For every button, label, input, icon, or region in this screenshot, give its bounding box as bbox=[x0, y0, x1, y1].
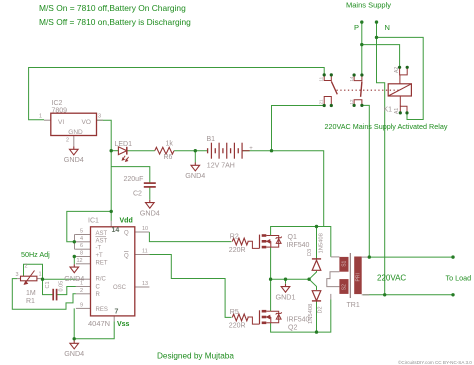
svg-text:GND4: GND4 bbox=[64, 349, 84, 358]
svg-text:GND: GND bbox=[68, 129, 83, 136]
svg-text:14: 14 bbox=[349, 76, 354, 82]
svg-text:M/S On = 7810 off,Battery On C: M/S On = 7810 off,Battery On Charging bbox=[39, 3, 186, 13]
svg-text:R/C: R/C bbox=[96, 277, 107, 283]
svg-text:R5: R5 bbox=[230, 309, 239, 316]
svg-text:3: 3 bbox=[98, 114, 101, 120]
svg-text:1N5408: 1N5408 bbox=[308, 304, 314, 324]
svg-text:M/S Off = 7810 on,Battery is D: M/S Off = 7810 on,Battery is Discharging bbox=[39, 17, 191, 27]
svg-text:LED1: LED1 bbox=[115, 141, 133, 148]
svg-text:GND4: GND4 bbox=[185, 171, 205, 180]
svg-text:1M: 1M bbox=[26, 290, 36, 297]
svg-text:7809: 7809 bbox=[52, 108, 68, 115]
svg-text:Vss: Vss bbox=[117, 321, 130, 328]
svg-text:Designed by Mujtaba: Designed by Mujtaba bbox=[157, 352, 234, 361]
svg-text:AST: AST bbox=[96, 231, 108, 237]
svg-text:6: 6 bbox=[80, 243, 83, 249]
svg-text:1k: 1k bbox=[166, 141, 174, 148]
svg-text:5: 5 bbox=[80, 229, 83, 235]
svg-text:+: + bbox=[249, 146, 253, 152]
svg-text:0.05: 0.05 bbox=[59, 281, 65, 292]
svg-text:C: C bbox=[96, 285, 101, 291]
svg-text:10: 10 bbox=[142, 226, 148, 232]
svg-text:K1: K1 bbox=[384, 107, 393, 114]
svg-text:2: 2 bbox=[80, 288, 83, 294]
svg-text:IC1: IC1 bbox=[88, 218, 99, 225]
svg-text:A1: A1 bbox=[394, 108, 400, 114]
svg-text:P: P bbox=[354, 23, 359, 32]
svg-text:4047N: 4047N bbox=[88, 319, 110, 328]
svg-text:-T: -T bbox=[96, 246, 102, 252]
svg-text:D2: D2 bbox=[318, 306, 324, 313]
svg-text:IRF540: IRF540 bbox=[287, 242, 310, 249]
svg-text:R: R bbox=[96, 292, 101, 298]
svg-text:Mains Supply: Mains Supply bbox=[346, 1, 391, 10]
svg-text:To Load: To Load bbox=[446, 274, 472, 283]
svg-text:3: 3 bbox=[16, 272, 19, 278]
svg-text:S2: S2 bbox=[342, 284, 348, 290]
svg-text:4: 4 bbox=[80, 236, 83, 242]
svg-text:11: 11 bbox=[319, 76, 324, 81]
svg-text:220VAC: 220VAC bbox=[377, 274, 406, 283]
svg-text:1: 1 bbox=[39, 114, 42, 120]
svg-text:2: 2 bbox=[66, 138, 69, 144]
svg-text:1: 1 bbox=[80, 281, 83, 287]
svg-text:AST: AST bbox=[96, 238, 108, 244]
svg-text:12V 7AH: 12V 7AH bbox=[207, 162, 235, 169]
svg-text:C2: C2 bbox=[133, 191, 142, 198]
svg-text:©CircuitsDIY.com CC BY-NC-SA 3: ©CircuitsDIY.com CC BY-NC-SA 3.0 bbox=[398, 359, 472, 365]
svg-text:R1: R1 bbox=[26, 298, 35, 305]
svg-text:C1: C1 bbox=[45, 281, 51, 288]
svg-text:Q: Q bbox=[124, 230, 129, 236]
svg-text:50Hz Adj: 50Hz Adj bbox=[21, 250, 50, 259]
svg-text:VO: VO bbox=[82, 119, 91, 126]
svg-text:21: 21 bbox=[319, 99, 324, 105]
svg-text:A2: A2 bbox=[394, 67, 400, 73]
svg-text:14: 14 bbox=[112, 227, 120, 234]
svg-text:D3: D3 bbox=[307, 249, 313, 256]
svg-text:7: 7 bbox=[115, 309, 119, 316]
svg-text:1: 1 bbox=[39, 272, 42, 278]
svg-text:GND4: GND4 bbox=[64, 155, 84, 164]
svg-text:TR1: TR1 bbox=[347, 302, 360, 309]
svg-text:Vdd: Vdd bbox=[120, 218, 133, 225]
svg-text:Q: Q bbox=[124, 253, 129, 259]
svg-text:OSC: OSC bbox=[113, 285, 127, 291]
svg-text:R2: R2 bbox=[230, 234, 239, 241]
svg-text:2: 2 bbox=[25, 264, 28, 270]
svg-text:13: 13 bbox=[142, 281, 148, 287]
svg-text:220R: 220R bbox=[229, 247, 246, 254]
svg-text:GND4: GND4 bbox=[140, 208, 160, 217]
svg-text:RET: RET bbox=[96, 260, 108, 266]
svg-text:Q2: Q2 bbox=[288, 325, 297, 332]
svg-text:VI: VI bbox=[58, 119, 64, 126]
svg-text:PRI: PRI bbox=[355, 273, 361, 281]
svg-text:S1: S1 bbox=[342, 260, 348, 266]
svg-text:GND1: GND1 bbox=[276, 292, 296, 301]
svg-text:B1: B1 bbox=[207, 136, 216, 143]
svg-text:8: 8 bbox=[80, 251, 83, 257]
svg-text:IC2: IC2 bbox=[52, 100, 63, 107]
svg-text:RES: RES bbox=[96, 307, 108, 313]
svg-text:IRF540: IRF540 bbox=[287, 317, 310, 324]
svg-text:12: 12 bbox=[349, 99, 354, 105]
svg-text:220uF: 220uF bbox=[124, 176, 144, 183]
svg-text:1N5408: 1N5408 bbox=[318, 233, 324, 253]
svg-text:12: 12 bbox=[77, 258, 83, 264]
svg-text:220R: 220R bbox=[229, 323, 246, 330]
svg-text:R6: R6 bbox=[164, 154, 173, 161]
svg-text:N: N bbox=[385, 23, 390, 32]
svg-text:+T: +T bbox=[96, 253, 104, 259]
svg-text:9: 9 bbox=[80, 302, 83, 308]
svg-text:220VAC Mains Supply Activated: 220VAC Mains Supply Activated Relay bbox=[325, 122, 448, 131]
svg-text:11: 11 bbox=[142, 249, 148, 255]
svg-text:Q1: Q1 bbox=[288, 234, 297, 241]
